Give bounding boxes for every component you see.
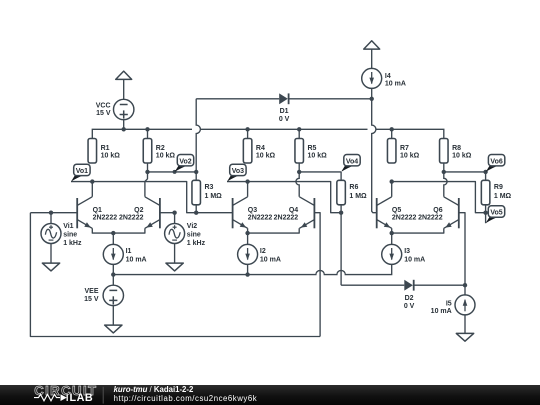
svg-text:Q5: Q5 [392,207,401,214]
resistor R5 [295,139,304,164]
svg-text:10 mA: 10 mA [260,257,281,264]
wire Vo3 stub [227,181,248,183]
node D1-I4 junction [370,97,374,101]
svg-text:R4: R4 [256,145,265,152]
node D2-I5 junction [463,283,467,287]
node Vi2 tap [172,211,176,215]
node R3 top junction [194,170,198,174]
svg-text:sine: sine [187,231,201,238]
svg-text:10 kΩ: 10 kΩ [101,153,121,160]
node I1 tap [111,231,115,235]
label I3 [404,248,425,263]
node Vi1 tap [49,211,53,215]
label Q4 [274,207,299,222]
transistor Q4 [299,197,314,229]
node R6 bottom [339,211,343,215]
transistor Q3 [233,197,248,229]
svg-text:D2: D2 [405,295,414,302]
wire rail stub R4 [247,129,249,138]
wire Vi1 bottom [50,244,52,264]
wire Q1 collector to Q3 base [92,182,232,213]
wire rail stub R2 [147,129,149,138]
label Q5 [392,207,417,222]
svg-text:1 kHz: 1 kHz [63,240,82,247]
probe flag Vo2 [173,155,194,174]
current source I3 [382,244,402,264]
probe flag Vo4 [341,155,360,172]
svg-text:10 kΩ: 10 kΩ [400,153,420,160]
wire R8 bottom to R9 top [444,163,486,180]
source Vi1 sine [41,224,61,244]
label R9 [494,184,512,200]
ground Vi1 [42,263,59,271]
svg-text:10 mA: 10 mA [431,308,452,315]
svg-text:R9: R9 [494,184,503,191]
svg-text:R8: R8 [452,145,461,152]
wire Q6 collector vertical with hop [444,172,447,197]
wire D2 cathode [414,284,465,286]
label Vi1 [63,223,82,247]
transistor Q2 [145,197,160,229]
svg-text:I4: I4 [385,73,391,80]
svg-text:R3: R3 [205,184,214,191]
svg-text:1 MΩ: 1 MΩ [494,193,512,200]
svg-text:0 V: 0 V [279,116,290,123]
wire Q4 base down [314,213,320,337]
label Q1 [93,207,118,222]
resistor R8 [440,139,449,164]
transistor Q5 [377,197,392,229]
node rail R5 [297,127,301,131]
wire I4 vertical to Q5 base with hop over VCC rail [372,99,377,213]
node Q5 collector [390,179,394,183]
svg-text:I3: I3 [404,248,410,255]
label I2 [260,248,281,263]
svg-text:2N2222: 2N2222 [418,215,443,222]
resistor R7 [387,139,396,164]
svg-text:Vo1: Vo1 [76,168,88,175]
label R2 [156,145,176,160]
wire Q6 base down to I5 [459,213,465,286]
label R1 [101,145,121,160]
wire VEE rail with hops [113,264,391,274]
source Vi2 sine [165,224,185,244]
voltage source VEE [103,275,123,306]
resistor R3 [192,180,201,205]
svg-text:15 V: 15 V [84,296,99,303]
svg-text:10 mA: 10 mA [385,81,406,88]
svg-text:Vi1: Vi1 [63,223,73,230]
wire R6 bottom down to D2 [340,213,342,286]
label R8 [452,145,472,160]
svg-text:I1: I1 [126,248,132,255]
svg-text:10 kΩ: 10 kΩ [156,153,176,160]
label Vi2 [187,223,206,247]
node I2-VEE junction [245,272,249,276]
ground VEE [105,325,122,333]
svg-text:D1: D1 [280,108,289,115]
label R5 [308,145,328,160]
label I4 [385,73,406,88]
resistor R4 [243,139,252,164]
label Q6 [418,207,443,222]
svg-text:1 MΩ: 1 MΩ [205,193,223,200]
node rail R4 [245,127,249,131]
label R4 [256,145,276,160]
wire R6 bottom stub [340,205,342,213]
node R8 bottom [442,170,446,174]
ground Vi2 [166,263,183,271]
svg-text:1 kHz: 1 kHz [187,240,206,247]
svg-text:R7: R7 [400,145,409,152]
wire I2 bottom [247,264,249,274]
wire D1 cathode [289,98,372,100]
wire I3 top [391,233,393,244]
resistor R2 [143,139,152,164]
wire D2 anode [341,284,404,286]
probe flag Vo3 [227,164,246,181]
wire VEE to ground [112,306,114,326]
label R3 [205,184,223,200]
svg-text:10 mA: 10 mA [404,257,425,264]
wire Vi2 top [174,213,176,224]
wire Vo1 stub [71,181,92,183]
svg-text:R2: R2 [156,145,165,152]
wire emitter rail stage3 [392,228,444,233]
svg-text:2N2222: 2N2222 [119,215,144,222]
node R2 bottom [145,170,149,174]
wire Vo5 stub [485,213,487,224]
svg-text:VCC: VCC [96,102,111,109]
wire D1 anode [196,98,279,100]
footer text title [114,385,258,403]
probe flag Vo6 [486,155,505,172]
svg-text:Vo3: Vo3 [232,168,244,175]
label D2 [404,295,415,310]
wire Q1 collector pin [91,182,93,197]
wire R9 bottom stub [485,205,487,213]
svg-text:I5: I5 [446,301,452,308]
svg-text:2N2222: 2N2222 [274,215,299,222]
node R3 bottom [194,211,198,215]
svg-text:kuro-tmu / Kadai1-2-2: kuro-tmu / Kadai1-2-2 [114,385,194,394]
svg-text:10 kΩ: 10 kΩ [256,153,276,160]
wire Q1 base to left rail [30,212,77,214]
power flag VCC arrow [116,71,132,99]
wire I4 to D1 node [371,88,373,98]
label R7 [400,145,420,160]
wire R2 bottom to R3 top [148,163,197,172]
wire Q4 collector vertical with hop [296,172,299,197]
wire Q5 collector to R9 bottom [392,182,486,213]
wire emitter rail stage2 [248,228,300,233]
voltage source VCC [114,99,134,129]
svg-text:R5: R5 [308,145,317,152]
svg-text:Vo2: Vo2 [179,158,191,165]
wire I1 bottom [112,264,114,274]
svg-text:Vo5: Vo5 [490,210,502,217]
wire left and bottom rail [30,213,320,337]
wire Vi1 top [50,213,52,224]
wire I5 bottom [464,315,466,334]
svg-text:R1: R1 [101,145,110,152]
svg-text:10 mA: 10 mA [126,257,147,264]
node I2 tap [245,231,249,235]
wire Vi2 bottom [174,244,176,264]
CircuitLab logo [34,383,103,404]
svg-text:Q3: Q3 [248,207,257,214]
node R5 bottom [297,170,301,174]
wire I5 top [464,285,466,295]
wire R5 bottom to R6 top [299,163,341,180]
wire Q2 collector jog [145,172,148,197]
wire I2 top [247,233,249,244]
label I1 [126,248,147,263]
label VEE [84,288,99,303]
svg-text:2N2222: 2N2222 [392,215,417,222]
wire Q5 collector pin [391,182,393,197]
svg-text:LAB: LAB [70,392,94,404]
diode D2 [404,280,413,291]
wire rail stub R7 [391,129,393,138]
label D1 [279,108,290,123]
diode D1 [279,93,288,104]
power flag I4 arrow [364,41,380,69]
label VCC [96,102,111,117]
node R9 top [483,170,487,174]
wire VCC rail [92,129,444,138]
wire Q3 collector pin [247,182,249,197]
wire I1 top [112,233,114,244]
resistor R6 [337,180,346,205]
node I3 tap [390,231,394,235]
label Q3 [248,207,273,222]
wire Q2 base to Vi2 [160,212,175,214]
svg-text:2N2222: 2N2222 [248,215,273,222]
node I1-VEE junction [111,272,115,276]
svg-text:Q4: Q4 [289,207,298,214]
current source I1 [103,244,123,264]
wire Q3 collector to R6 bottom [248,182,342,213]
wire rail stub R5 [298,129,300,138]
ground I5 [456,333,473,341]
svg-text:Vo4: Vo4 [346,158,358,165]
wire emitter rail stage1 [92,228,145,233]
svg-text:R6: R6 [349,184,358,191]
current source I2 [238,244,258,264]
svg-text:10 kΩ: 10 kΩ [452,153,472,160]
footer bar [0,385,540,405]
transistor Q6 [444,197,459,229]
current source I5 [455,295,475,315]
wire D1 vertical with hop over VCC rail [196,99,200,172]
svg-text:Vi2: Vi2 [187,223,197,230]
label Q2 [119,207,144,222]
svg-text:1 MΩ: 1 MΩ [349,193,367,200]
wire R3 top stub [195,172,197,180]
transistor Q1 [77,197,92,229]
node rail R2 [145,127,149,131]
probe flag Vo5 [486,206,505,223]
resistor R9 [481,180,490,205]
svg-text:0 V: 0 V [404,303,415,310]
svg-text:http://circuitlab.com/csu2nce6: http://circuitlab.com/csu2nce6kwy6k [114,394,258,403]
svg-text:Q1: Q1 [93,207,102,214]
node VCC on rail [122,127,126,131]
svg-text:VEE: VEE [84,288,98,295]
node Q3 collector [245,179,249,183]
probe flag Vo1 [71,164,90,181]
resistor R1 [88,139,97,164]
wire R3 bottom stub [195,205,197,213]
svg-text:I2: I2 [260,248,266,255]
node R9 bottom [483,211,487,215]
svg-text:Vo6: Vo6 [490,158,502,165]
node rail R7 [390,127,394,131]
svg-text:sine: sine [63,231,77,238]
current source I4 [362,68,382,88]
svg-text:10 kΩ: 10 kΩ [308,153,328,160]
svg-text:Q6: Q6 [433,207,442,214]
svg-text:15 V: 15 V [96,110,111,117]
svg-text:2N2222: 2N2222 [93,215,118,222]
label I5 [431,301,452,316]
label R6 [349,184,367,200]
svg-text:Q2: Q2 [134,207,143,214]
node Q1 collector [90,179,94,183]
